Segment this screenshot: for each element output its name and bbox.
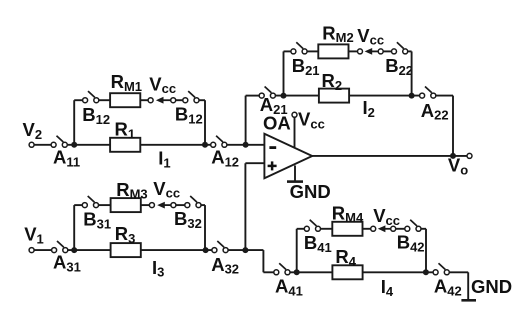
wire to op-amp non-inverting input — [245, 162, 264, 164]
resistor RM2 — [318, 44, 348, 58]
resistor RM1 — [110, 93, 140, 107]
wire block2 riser right — [411, 51, 413, 95]
terminal Vcc source block3 — [171, 203, 176, 208]
wire B41 to RM4 — [321, 228, 333, 230]
wire RM2 to Vcc tap — [349, 50, 358, 52]
wire block1 riser left — [73, 100, 75, 145]
node junction block3 right — [203, 247, 209, 253]
wire block4 riser left — [296, 229, 298, 272]
node junction block4 left — [294, 269, 300, 275]
wire Vcc to B22 — [383, 50, 391, 52]
wire A22 to output corner — [436, 95, 453, 97]
switch B21 — [291, 42, 307, 54]
node junction block1 right — [202, 142, 208, 148]
switch B42 — [405, 220, 421, 232]
wire A12 to op-amp inverting input — [227, 144, 264, 146]
wire R3 to A32 (current I3) — [141, 249, 212, 251]
resistor R1 — [110, 138, 140, 152]
op-amp inverting input marker (-) — [269, 146, 276, 149]
Vcc feed arrow block2 — [365, 48, 380, 55]
wire riser to B21 — [284, 50, 291, 52]
wire R4 to A42 (current I4) — [363, 271, 433, 273]
terminal Vo — [467, 153, 472, 158]
node junction block3 left — [71, 247, 77, 253]
resistor R2 — [319, 89, 349, 103]
wire Vcc to B42 — [396, 228, 405, 230]
resistor RM4 — [332, 222, 362, 236]
node junction block1 left — [71, 142, 77, 148]
op-amp non-inverting input marker (+) — [268, 161, 277, 170]
wire A21 to R2 — [275, 95, 319, 97]
svg-text:GND: GND — [290, 181, 331, 202]
node junction block2 right — [409, 93, 415, 99]
wire B12 to RM1 — [99, 99, 110, 101]
wire A11 to R1 — [68, 144, 110, 146]
node inverting input junction — [243, 142, 249, 148]
wire B12 right to corner — [199, 99, 205, 101]
ground symbol block 4 — [461, 299, 476, 302]
svg-text:OA: OA — [263, 113, 291, 134]
terminal Vcc tap block1 — [148, 98, 153, 103]
wire block4 riser right — [425, 229, 427, 272]
terminal V1 — [29, 248, 34, 253]
resistor RM3 — [111, 198, 141, 212]
Vcc feed arrow block3 — [157, 202, 172, 209]
Vcc feed arrow block1 — [156, 97, 171, 104]
wire RM1 to Vcc tap — [140, 99, 148, 101]
wire block3 riser left — [73, 205, 75, 250]
wire op-amp Vcc stub — [294, 117, 296, 147]
op-amp U1 triangle — [264, 134, 312, 178]
switch A32 — [212, 241, 228, 253]
switch B31 — [82, 196, 98, 208]
wire V1 to A31 — [34, 249, 51, 251]
terminal Vcc source block1 — [171, 98, 176, 103]
switch A41 — [274, 263, 290, 275]
wire R2 to A22 (current I2) — [349, 95, 420, 97]
switch A21 — [259, 87, 275, 99]
wire B31 to RM3 — [99, 204, 111, 206]
wire riser to B31 — [74, 204, 82, 206]
wire RM4 to Vcc tap — [362, 228, 371, 230]
switch B32 — [185, 196, 201, 208]
node output junction — [450, 153, 456, 159]
switch B22 — [392, 42, 408, 54]
wire B21 to RM2 — [307, 50, 318, 52]
wire corner to A41 — [263, 271, 273, 273]
terminal Vcc tap block3 — [149, 203, 154, 208]
wire Vcc to B12 right — [176, 99, 183, 101]
terminal Vcc tap block4 — [371, 226, 376, 231]
wire A22 drop to output — [452, 96, 454, 156]
terminal op-amp Vcc — [292, 112, 297, 117]
switch A12 — [211, 136, 227, 148]
wire A32 to corner — [228, 249, 263, 251]
terminal Vcc tap block2 — [358, 49, 363, 54]
wire inverting node riser — [245, 96, 247, 145]
wire B22 to corner — [408, 50, 412, 52]
resistor R4 — [332, 265, 362, 279]
node junction block2 left — [281, 93, 287, 99]
wire drop to ground — [467, 272, 469, 300]
svg-text:GND: GND — [471, 276, 512, 297]
switch B12 (left) — [83, 91, 99, 103]
wire B32 to corner — [201, 204, 205, 206]
terminal Vcc source block2 — [378, 49, 383, 54]
wire block3 riser right — [204, 205, 206, 250]
wire riser to B12 left — [74, 99, 82, 101]
wire A41 to R4 — [290, 271, 332, 273]
wire block2 riser left — [283, 51, 285, 95]
wire riser to B41 — [297, 228, 305, 230]
wire non-inverting riser — [244, 163, 246, 250]
wire A32 node down to block4 — [262, 250, 264, 272]
wire A42 to ground — [450, 271, 469, 273]
wire block1 riser right — [204, 100, 206, 145]
switch A42 — [433, 263, 449, 275]
switch A31 — [52, 241, 68, 253]
switch B41 — [304, 220, 320, 232]
wire RM3 to Vcc tap — [141, 204, 150, 206]
wire Vcc to B32 — [176, 204, 185, 206]
wire op-amp ground stub — [294, 166, 296, 182]
node junction block4 right — [423, 269, 429, 275]
ground symbol below op-amp — [287, 180, 303, 183]
switch B12 (right) — [183, 91, 199, 103]
wire V2 to A11 — [34, 144, 51, 146]
wire op-amp output to Vo — [312, 155, 467, 157]
wire A31 to R3 — [67, 249, 110, 251]
wire B42 to corner — [421, 228, 426, 230]
Vcc feed arrow block4 — [378, 225, 393, 232]
resistor R3 — [111, 243, 141, 257]
wire R1 to A12 (current I1) — [140, 144, 210, 146]
wire corner to A21 — [246, 95, 260, 97]
terminal V2 — [29, 142, 34, 147]
node non-inverting junction — [242, 247, 248, 253]
switch A22 — [420, 87, 436, 99]
switch A11 — [51, 136, 67, 148]
terminal Vcc source block4 — [391, 226, 396, 231]
